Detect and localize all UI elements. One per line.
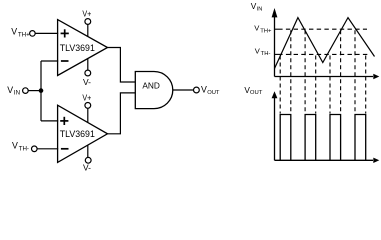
svg-text:TH+: TH+ [260,29,272,35]
label VOUT (graph) [244,85,262,96]
waveform VOUT pulse 4 [355,115,366,161]
svg-text:OUT: OUT [250,90,263,96]
graph bottom Y axis [272,91,278,160]
wire to U2 noninverting input [41,120,58,122]
label VIN (graph) [251,1,263,12]
svg-text:AND: AND [142,81,160,91]
wire junction vertical bus [40,61,42,121]
waveform VOUT pulse 1 [280,115,291,161]
wire U1 output to AND input A [108,48,136,83]
U2 + input symbol [60,117,68,125]
wire to U1 inverting input [41,60,58,62]
crossing dashed vertical x=280 [279,56,281,114]
threshold line VTH- (dashed) [275,53,283,55]
waveform VIN triangle wave [275,18,375,69]
svg-text:TH+: TH+ [18,32,30,39]
svg-text:V+: V+ [82,8,91,18]
AND gate U3 [135,72,172,109]
svg-text:V-: V- [83,77,91,87]
svg-text:V: V [7,85,13,95]
svg-text:V: V [12,141,18,151]
wire VTH- to U2 inverting input [37,148,58,150]
terminal VTH+ [11,27,35,39]
svg-text:TH-: TH- [19,146,29,153]
terminal VOUT [194,84,220,96]
crossing dashed vertical x=315.6 [315,56,317,114]
graph top X axis [275,74,380,79]
U2 pin V+ [82,92,91,122]
svg-text:TLV3691: TLV3691 [60,43,95,53]
wire U2 output to AND input B [108,93,136,134]
op-amp U1 TLV3691 (top comparator) [58,20,108,76]
svg-text:V+: V+ [82,92,91,102]
U1 - input symbol [61,60,69,62]
wire VIN to junction [28,90,41,92]
svg-text:V-: V- [83,162,91,172]
U1 pin V- [83,58,91,87]
svg-text:OUT: OUT [207,90,220,96]
svg-text:TLV3691: TLV3691 [60,129,95,139]
svg-text:TH-: TH- [261,51,271,57]
label VTH+ (graph) [254,24,272,35]
U2 - input symbol [61,148,69,150]
U2 pin V- [83,145,91,172]
waveform VOUT pulse 2 [305,115,316,161]
svg-text:V: V [11,27,17,37]
U1 pin V+ [82,8,91,36]
crossing dashed vertical x=305 [304,30,306,113]
crossing dashed vertical x=355 [354,30,356,113]
graph bottom X axis [275,158,380,163]
waveform VOUT pulse 3 [330,115,341,161]
terminal VIN [7,85,28,97]
svg-text:V: V [201,84,207,94]
crossing dashed vertical x=290.7 [290,30,292,113]
graph top Y axis [272,8,278,77]
terminal VTH- [12,141,37,153]
svg-text:IN: IN [14,90,20,97]
crossing dashed vertical x=365.6 [365,56,367,114]
U1 + input symbol [61,29,69,37]
label VTH- (graph) [255,47,271,58]
node VIN junction [39,88,44,93]
op-amp U2 TLV3691 (bottom comparator) [58,105,108,162]
svg-text:IN: IN [257,7,263,13]
crossing dashed vertical x=340.6 [340,30,342,113]
wire VTH+ to U1 noninverting input [35,32,58,34]
crossing dashed vertical x=330 [329,56,331,114]
wire U3 output to VOUT [173,89,194,91]
threshold line VTH+ (dashed) [275,28,283,30]
